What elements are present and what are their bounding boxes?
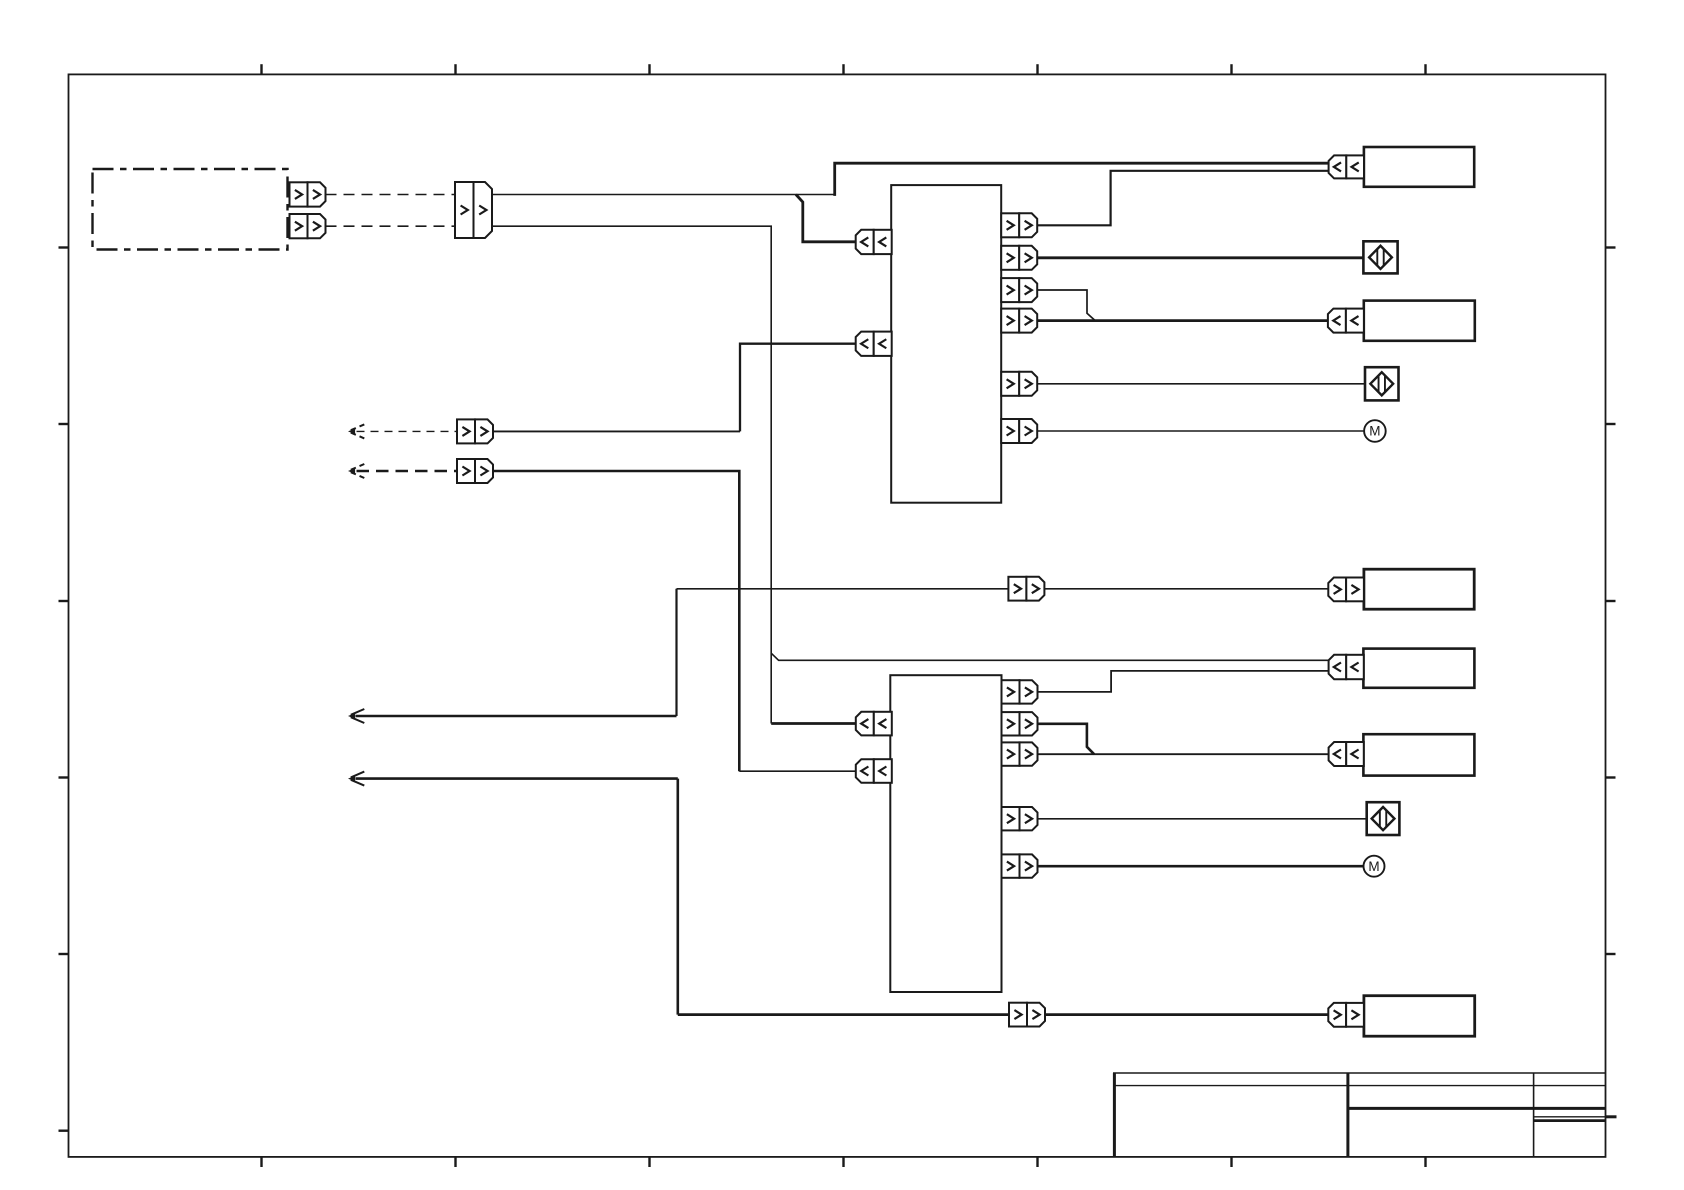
wire: bus from inline connector to junction, upper — [492, 194, 835, 196]
svg-text:M: M — [1369, 424, 1380, 439]
module A pin 4 — [1001, 309, 1019, 333]
wire: module A pin 2 to solenoid valve V1 — [1037, 256, 1363, 259]
connector on phantom component, pin 2 — [290, 214, 308, 238]
control module B — [890, 675, 1001, 992]
wire: junction riser up and across to component B1 connector pin 1 — [835, 163, 1329, 196]
component B2 — [1364, 301, 1475, 341]
solenoid valve V2 — [1365, 367, 1399, 400]
wire: drop wire across to dashed-arrow connector row 1 — [492, 430, 740, 432]
title block — [1113, 1073, 1116, 1157]
component B2 connector — [1328, 309, 1346, 333]
component B8 connector — [1328, 1003, 1346, 1027]
component B6 connector — [1329, 742, 1347, 766]
connector on phantom component, pin 1 — [290, 182, 308, 206]
component B4 connector — [1328, 578, 1346, 602]
wire: thick stub into control module B left pin A — [771, 722, 856, 725]
wire: long off-page arrow upper to component B4 row — [356, 715, 677, 718]
module A pin 1 — [1001, 213, 1019, 237]
svg-text:M: M — [1368, 859, 1379, 874]
wire: dashed off-page link row 1 — [357, 430, 458, 432]
solenoid valve V1 — [1363, 241, 1397, 273]
wire: module B pin 1 up to component B5 connector pin 2 — [1037, 671, 1328, 692]
off-page arrow lower left — [348, 776, 355, 782]
module A pin 6 — [1001, 419, 1019, 443]
component B4 (mid right) — [1364, 569, 1474, 609]
module B left pin B — [856, 759, 874, 783]
wire: module B pin 2 splice down — [1037, 724, 1094, 754]
wire: row 2 connector to control module B left pin B — [492, 471, 739, 771]
motor M1 — [1364, 420, 1386, 442]
module A pin 2 — [1001, 246, 1019, 270]
wire: row to component B4 through inline connector — [677, 588, 1329, 590]
component B5 — [1363, 649, 1474, 688]
wire: bus from inline connector lower, long drop to control module B pin A — [492, 226, 771, 723]
inline connector row B8 — [1009, 1003, 1027, 1027]
solenoid valve V3 — [1367, 802, 1400, 835]
wire: module A pin 5 to solenoid valve V2 — [1037, 383, 1365, 385]
wire: control module A left pin B to drop wire — [740, 344, 856, 432]
inline connector dashed row 1 — [457, 419, 475, 443]
module A left pin B — [856, 332, 874, 356]
control module A — [891, 185, 1001, 503]
phantom component (dash-dot outline) top left — [93, 169, 288, 250]
inline connector row B4 — [1008, 577, 1026, 601]
wire: module A pin 4 to component B2 connector — [1037, 319, 1328, 322]
wire: module A pin 3 splice down — [1037, 290, 1095, 321]
inline connector dashed row 2 — [457, 459, 475, 483]
module A left pin A — [856, 230, 874, 254]
wire: module B pin 5 to motor M2 — [1037, 865, 1363, 868]
wire: module B pin 3 to component B6 connector — [1037, 753, 1328, 755]
wire: dashed off-page link row 2 (thick) — [357, 470, 458, 473]
motor M2 — [1364, 856, 1385, 877]
module B left pin A — [856, 712, 874, 736]
module B pin 1 — [1002, 680, 1020, 703]
wire: dashed twisted-pair link lower from connector to inline connector — [326, 225, 456, 227]
component B8 bottom right — [1364, 996, 1475, 1036]
wire: long off-page arrow lower to component B8 row — [356, 777, 678, 780]
component B1 top right — [1364, 147, 1474, 187]
inline connector (2-pole) J1 — [455, 182, 474, 238]
wire: splice branch to component B5 connector pin 1 — [771, 653, 1328, 660]
component B6 — [1363, 734, 1474, 775]
off-page arrow row 1 — [348, 429, 355, 435]
module A pin 5 — [1001, 372, 1019, 396]
off-page arrow upper left — [348, 713, 355, 719]
component B1 connector — [1329, 155, 1347, 178]
module A pin 3 — [1001, 278, 1019, 302]
off-page arrow row 2 — [348, 468, 355, 474]
wire: dashed twisted-pair link upper from connector to inline connector — [326, 194, 456, 196]
module B pin 2 — [1002, 712, 1020, 735]
component B5 connector — [1329, 655, 1347, 679]
wire: bottom row to component B8 through inline connector — [678, 1013, 1329, 1016]
module B pin 5 — [1002, 854, 1020, 877]
wire: splice branch down to control module A left pin 1 — [796, 195, 856, 242]
wire: module B pin 4 to solenoid valve V3 — [1037, 818, 1367, 820]
module B pin 3 — [1002, 742, 1020, 765]
wire: control module A pin 1 to component B1 connector pin 2 — [1037, 171, 1329, 226]
wire: module A pin 6 to motor M1 — [1037, 430, 1364, 432]
module B pin 4 — [1002, 807, 1020, 830]
